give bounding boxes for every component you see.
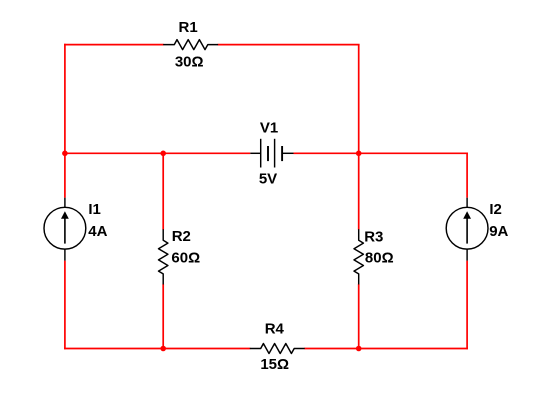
wire: left vertical upper (top-left corner to I1) [64,44,66,198]
current source I1 [44,198,86,261]
I2 arrow shaft [466,218,468,244]
wire: R2 branch upper [162,153,164,230]
I2 bottom pin stub [466,249,468,261]
resistor R1 [164,40,218,50]
junction: middle net at left vertical [62,151,68,157]
svg-text:I1: I1 [88,201,101,218]
svg-text:15Ω: 15Ω [260,356,289,373]
wire: right vertical lower (I2 to bottom-right corner) [466,261,468,350]
junction: middle net at R3 branch [356,151,362,157]
junction: middle net at R2 branch [160,151,166,157]
resistor R3 [354,230,363,284]
I1 arrow shaft [64,218,66,244]
I2 top pin stub [466,198,468,208]
V1 long plate (right) [274,139,276,168]
wire: R2 branch lower [162,284,164,349]
svg-text:V1: V1 [260,120,278,137]
wire: middle net, left segment [65,152,250,154]
I1 arrow head [61,211,69,218]
wire: bottom net, left segment [64,348,250,350]
V1 left lead [250,152,260,154]
wire: R3 branch upper [358,153,360,230]
svg-text:9A: 9A [489,223,508,240]
V1 long plate (left) [260,139,262,168]
wire: R3 branch lower [358,284,360,349]
battery V1 [250,139,293,168]
I2 circle body [446,207,488,249]
I1 top pin stub [64,198,66,208]
svg-text:30Ω: 30Ω [175,53,204,70]
wire: top net, left segment [64,44,164,46]
wire: top net, right segment [218,44,360,46]
V1 right lead [282,152,293,154]
svg-text:R2: R2 [172,228,191,245]
wire: bottom net, right segment [304,348,468,350]
wire: vertical from R1 right down to middle net [358,45,360,154]
wire: middle net, right segment [294,152,468,154]
svg-text:I2: I2 [489,201,502,218]
wire: left vertical lower (I1 to bottom-left corner) [64,261,66,350]
V1 short plate (inner left) [267,146,269,161]
svg-text:R4: R4 [265,321,285,338]
current source I2 [446,198,488,261]
I2 arrow head [463,211,471,218]
svg-text:R1: R1 [179,19,198,36]
svg-text:80Ω: 80Ω [365,249,394,266]
I1 bottom pin stub [64,249,66,261]
junction: bottom net at R2 branch [160,346,166,352]
svg-text:4A: 4A [88,223,107,240]
V1 short plate (outer right) [281,146,283,161]
resistor R2 [159,230,168,284]
I1 circle body [44,207,86,249]
svg-text:60Ω: 60Ω [171,249,200,266]
resistor R4 [250,344,304,354]
svg-text:R3: R3 [364,228,383,245]
svg-text:5V: 5V [259,170,277,187]
wire: right vertical upper (middle net to I2) [466,153,468,198]
junction: bottom net at R3 branch [356,346,362,352]
